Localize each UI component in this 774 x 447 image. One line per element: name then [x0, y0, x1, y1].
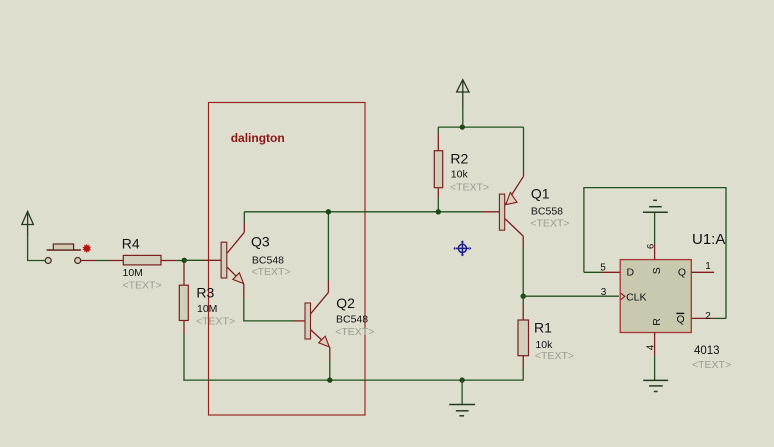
svg-text:6: 6: [646, 244, 657, 249]
svg-text:2: 2: [705, 311, 711, 322]
svg-text:BC548: BC548: [336, 314, 368, 326]
svg-text:<TEXT>: <TEXT>: [450, 181, 489, 193]
svg-text:CLK: CLK: [626, 291, 646, 303]
svg-text:4: 4: [645, 344, 656, 350]
svg-text:10k: 10k: [451, 169, 469, 181]
svg-text:<TEXT>: <TEXT>: [196, 316, 235, 328]
svg-text:D: D: [627, 267, 635, 279]
svg-text:R: R: [651, 318, 663, 326]
svg-text:4013: 4013: [694, 345, 720, 357]
svg-text:Q3: Q3: [251, 233, 270, 249]
svg-text:Q: Q: [678, 267, 686, 279]
svg-text:dalington: dalington: [231, 131, 285, 145]
svg-text:BC548: BC548: [252, 254, 284, 266]
svg-text:1: 1: [705, 261, 711, 272]
svg-text:10M: 10M: [123, 267, 143, 279]
svg-text:R1: R1: [534, 319, 552, 335]
svg-text:10M: 10M: [197, 303, 217, 315]
svg-text:BC558: BC558: [531, 206, 563, 218]
svg-text:<TEXT>: <TEXT>: [530, 218, 569, 230]
svg-text:<TEXT>: <TEXT>: [123, 280, 162, 292]
svg-text:R3: R3: [196, 285, 214, 301]
svg-text:Q1: Q1: [531, 186, 550, 202]
svg-text:<TEXT>: <TEXT>: [692, 359, 731, 371]
svg-text:R4: R4: [122, 236, 140, 252]
svg-text:Q: Q: [677, 314, 685, 326]
svg-text:R2: R2: [450, 151, 468, 167]
svg-text:<TEXT>: <TEXT>: [535, 350, 574, 362]
svg-text:S: S: [651, 267, 663, 274]
svg-text:<TEXT>: <TEXT>: [252, 266, 291, 278]
svg-text:3: 3: [601, 287, 607, 298]
svg-text:Q2: Q2: [336, 295, 355, 311]
svg-text:5: 5: [600, 263, 606, 274]
svg-text:U1:A: U1:A: [692, 231, 725, 248]
svg-text:<TEXT>: <TEXT>: [335, 326, 374, 338]
